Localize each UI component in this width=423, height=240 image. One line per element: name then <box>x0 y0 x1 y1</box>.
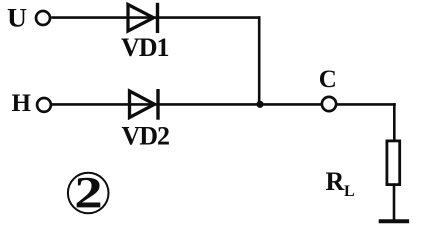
diode VD2 <box>130 89 159 120</box>
wire <box>258 16 261 104</box>
ground <box>379 219 409 223</box>
wire <box>337 103 396 106</box>
svg-text:L: L <box>344 183 355 200</box>
svg-text:H: H <box>12 90 32 117</box>
wire <box>52 103 322 106</box>
svg-text:C: C <box>319 66 337 93</box>
terminal H <box>37 98 51 112</box>
wire <box>393 184 396 221</box>
junction <box>256 101 263 108</box>
svg-text:U: U <box>7 4 27 33</box>
terminal U <box>36 11 50 25</box>
diode VD1 <box>128 3 158 33</box>
label RL <box>326 167 355 200</box>
terminal C <box>322 97 336 111</box>
svg-text:R: R <box>326 167 345 196</box>
wire <box>393 103 396 142</box>
resistor RL <box>387 141 400 185</box>
wire <box>51 16 260 19</box>
figure number 2 <box>68 168 109 217</box>
svg-text:VD1: VD1 <box>121 33 169 62</box>
svg-text:2: 2 <box>74 168 103 217</box>
svg-text:VD2: VD2 <box>122 122 170 151</box>
